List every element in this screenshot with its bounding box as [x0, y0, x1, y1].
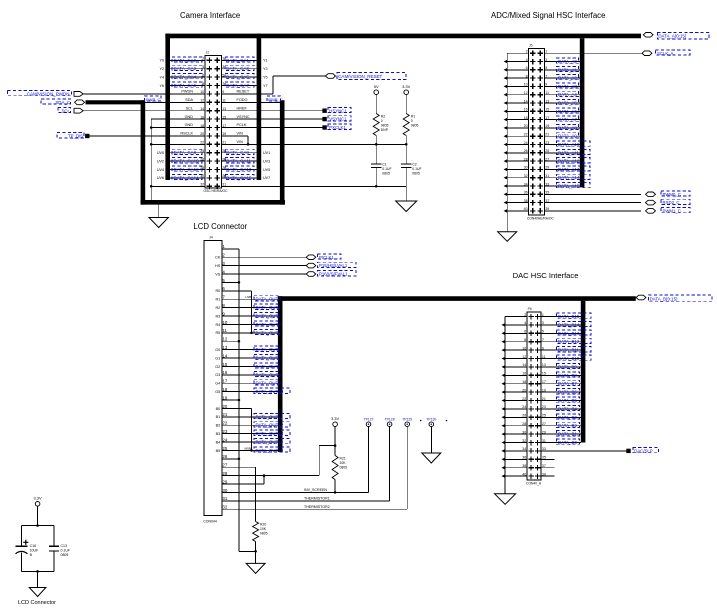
- wire rail to ground: [405, 186, 407, 201]
- wire R21 to INV_SCREEN: [334, 480, 336, 493]
- wire pin32: [151, 185, 205, 187]
- wire DATA_OUT9: [222, 382, 278, 384]
- svg-text:SDA: SDA: [185, 98, 193, 102]
- svg-text:LCD Connector: LCD Connector: [18, 600, 56, 606]
- svg-text:0.1UF: 0.1UF: [61, 549, 71, 553]
- svg-text:DATA_B14: DATA_B14: [558, 322, 580, 327]
- net label DATA_B5: [557, 397, 580, 402]
- svg-text:CAM/VISION_PWDN: CAM/VISION_PWDN: [27, 92, 70, 97]
- connector P6 CON40_A: [522, 307, 546, 485]
- wire J5 pin14: [507, 102, 528, 104]
- svg-text:P16/VS/FVAL1: P16/VS/FVAL1: [319, 272, 348, 277]
- wire DATA_B4: [541, 408, 581, 410]
- wire J5 pin34: [507, 185, 528, 187]
- svg-text:13: 13: [545, 99, 549, 103]
- net label DATA_B3: [557, 414, 580, 419]
- wire LCD pin19: [222, 399, 239, 401]
- svg-text:13: 13: [222, 107, 226, 111]
- wire LCD pin5: [222, 281, 239, 283]
- svg-text:DATA_CA6: DATA_CA6: [174, 83, 197, 88]
- net label DATA_OUT6: [254, 355, 278, 360]
- wire J2 Y1: [221, 59, 256, 61]
- net label DATA_A0: [557, 58, 579, 63]
- wire DATA_A10: [545, 144, 580, 146]
- bus DATA_OUT horizontal: [278, 296, 636, 301]
- svg-text:16: 16: [222, 370, 227, 375]
- wire P6 pin12: [505, 358, 527, 360]
- svg-text:P6: P6: [528, 307, 532, 311]
- svg-text:DATA_A13: DATA_A13: [558, 167, 580, 172]
- svg-text:31: 31: [222, 496, 227, 501]
- svg-text:31: 31: [545, 174, 549, 178]
- svg-text:DATA_A15: DATA_A15: [558, 184, 580, 189]
- wire DATA_OUT8: [222, 374, 278, 376]
- svg-text:C1: C1: [382, 163, 386, 167]
- svg-text:15: 15: [545, 108, 549, 112]
- wire J5 pin2: [507, 52, 528, 54]
- wire J5 pin4: [507, 61, 528, 63]
- wire J2 UV5: [221, 169, 256, 171]
- svg-text:29: 29: [222, 174, 226, 178]
- wire INV_SCREEN: [222, 491, 369, 493]
- svg-text:B5: B5: [216, 449, 221, 453]
- wire J2 UV3: [221, 160, 256, 162]
- wire DATA_B3: [541, 416, 581, 418]
- svg-text:11: 11: [222, 99, 226, 103]
- svg-text:DATA_B12: DATA_B12: [558, 339, 580, 344]
- svg-text:18: 18: [524, 116, 528, 120]
- svg-text:40: 40: [524, 207, 528, 211]
- svg-text:11: 11: [222, 328, 227, 333]
- wire DATA_OUT0: [222, 298, 278, 300]
- svg-text:34: 34: [524, 182, 528, 186]
- svg-text:4: 4: [524, 321, 526, 325]
- svg-text:24: 24: [522, 405, 526, 409]
- svg-text:21: 21: [542, 397, 546, 401]
- wire J5 pin12: [507, 94, 528, 96]
- svg-text:P15/HS/LVAL1: P15/HS/LVAL1: [319, 263, 348, 268]
- svg-text:CON40_A: CON40_A: [526, 481, 542, 485]
- svg-text:TP130: TP130: [426, 417, 436, 421]
- wire PWM0_C: [545, 193, 642, 195]
- wire P6 pin32: [505, 442, 527, 444]
- wire pin22: [151, 143, 205, 145]
- port SDA tag: [75, 100, 85, 105]
- svg-text:35: 35: [545, 191, 549, 195]
- svg-text:C2: C2: [412, 163, 416, 167]
- svg-text:DATA_A12: DATA_A12: [558, 159, 580, 164]
- svg-text:20: 20: [222, 404, 227, 409]
- svg-text:DATA_CA9: DATA_CA9: [226, 150, 249, 155]
- svg-text:10: 10: [522, 346, 526, 350]
- svg-text:30: 30: [524, 166, 528, 170]
- svg-text:23: 23: [222, 429, 227, 434]
- net label DATA_OUT4: [254, 329, 278, 334]
- svg-text:17: 17: [222, 379, 227, 384]
- svg-text:12: 12: [522, 355, 526, 359]
- wire THERMISTOR1: [222, 500, 390, 502]
- net label DATA_B2: [557, 422, 580, 427]
- svg-text:20: 20: [524, 124, 528, 128]
- svg-text:TP127: TP127: [364, 417, 374, 421]
- bus PWR right vertical: [280, 100, 285, 204]
- svg-text:R5: R5: [215, 331, 220, 335]
- svg-text:10: 10: [524, 83, 528, 87]
- wire J5 pin20: [507, 127, 528, 129]
- wire GND pin18: [151, 127, 205, 129]
- svg-text:15: 15: [222, 362, 227, 367]
- svg-text:19: 19: [545, 124, 549, 128]
- svg-text:FODO: FODO: [237, 98, 248, 102]
- net label DATA_A11: [557, 149, 591, 154]
- svg-text:33: 33: [542, 447, 546, 451]
- svg-text:DATA_CA12: DATA_CA12: [174, 167, 200, 172]
- svg-text:DATA_A7: DATA_A7: [558, 117, 577, 122]
- svg-text:18: 18: [522, 380, 526, 384]
- net label DATA_B14: [557, 321, 592, 326]
- wire P6 pin2: [505, 316, 527, 318]
- svg-text:SDA_C: SDA_C: [55, 100, 70, 105]
- svg-text:7: 7: [542, 338, 544, 342]
- wire P6 pin6: [505, 332, 527, 334]
- svg-text:8: 8: [202, 82, 204, 86]
- wire J2 Y4: [170, 76, 205, 78]
- svg-text:HS: HS: [215, 264, 221, 268]
- wire P6 pin40: [505, 475, 527, 477]
- wire DATA_B6: [541, 391, 581, 393]
- wire DATA_A12: [545, 160, 580, 162]
- svg-text:3: 3: [542, 321, 544, 325]
- wire J2 Y7: [221, 85, 256, 87]
- resistor R2: [373, 114, 379, 136]
- svg-text:DATA_CA7: DATA_CA7: [226, 83, 249, 88]
- bus DAC right vertical: [581, 301, 586, 443]
- wire 3.3V to R1: [405, 95, 407, 114]
- svg-text:DATA_B10: DATA_B10: [558, 356, 580, 361]
- wire J5 pin18: [507, 119, 528, 121]
- wire R2 to node: [375, 136, 377, 145]
- svg-text:VS: VS: [215, 272, 221, 276]
- svg-text:R1: R1: [411, 115, 415, 119]
- wire R1 to node: [405, 136, 407, 145]
- wire J2 UV0: [170, 152, 205, 154]
- svg-text:DATA_B1: DATA_B1: [558, 432, 577, 437]
- svg-text:23: 23: [542, 405, 546, 409]
- net label DATA_A12: [557, 158, 591, 163]
- svg-text:0805: 0805: [61, 553, 69, 557]
- wire P6 pin4: [505, 324, 527, 326]
- svg-text:DATA_OUT12: DATA_OUT12: [256, 423, 284, 428]
- net label DATA_A3: [557, 83, 579, 88]
- wire DATA_OUT2: [222, 315, 278, 317]
- net label DATA_A8: [557, 124, 579, 129]
- wire DATA_A0: [545, 61, 580, 63]
- svg-text:UV0: UV0: [157, 151, 164, 155]
- testpoint TP129: [405, 422, 410, 427]
- svg-text:UV1: UV1: [263, 151, 270, 155]
- wire J5 pin26: [507, 152, 528, 154]
- net label DATA_B0: [557, 439, 580, 444]
- net label DATA_OUT7: [254, 363, 278, 368]
- svg-text:15: 15: [542, 372, 546, 376]
- svg-text:DATA_B15: DATA_B15: [558, 314, 580, 319]
- svg-text:23: 23: [222, 149, 226, 153]
- net label DATA_OUT14: [254, 439, 290, 444]
- svg-text:0805: 0805: [381, 124, 389, 128]
- svg-text:DATA_B7: DATA_B7: [558, 381, 577, 386]
- svg-text:2: 2: [202, 57, 204, 61]
- wire DATA_B12: [541, 341, 581, 343]
- svg-text:7: 7: [545, 74, 547, 78]
- svg-text:Y7: Y7: [263, 84, 268, 88]
- wire RXD2_C: [545, 202, 642, 204]
- svg-text:G3: G3: [215, 373, 220, 377]
- svg-text:DATA_B3: DATA_B3: [558, 415, 577, 420]
- wire SCL: [84, 110, 206, 112]
- wire node to C1: [375, 144, 377, 164]
- testpoint TP128: [387, 422, 392, 427]
- svg-text:B4: B4: [216, 440, 221, 444]
- svg-text:29: 29: [222, 479, 227, 484]
- net label DATA_B9: [557, 363, 580, 368]
- wire DATA_B8: [541, 374, 581, 376]
- wire pin6 jog: [222, 290, 252, 292]
- wire DATA_OUT14: [222, 441, 278, 443]
- svg-text:UV4: UV4: [157, 168, 164, 172]
- svg-text:39: 39: [545, 207, 549, 211]
- svg-text:4: 4: [202, 65, 204, 69]
- port CAM/VISION_RESET tag: [326, 74, 336, 79]
- wire DATA_B14: [541, 324, 581, 326]
- wire J5 pin32: [507, 177, 528, 179]
- testpoint TP130: [429, 422, 434, 427]
- wire C16 top stub: [21, 526, 23, 547]
- svg-text:28: 28: [222, 471, 227, 476]
- bus DATA_OUT vertical: [278, 296, 283, 452]
- wire P6 pin28: [505, 425, 527, 427]
- svg-text:14: 14: [524, 99, 528, 103]
- resistor R20: [253, 522, 259, 542]
- svg-text:1: 1: [542, 313, 544, 317]
- capacitor C2: [401, 163, 412, 165]
- svg-text:G2: G2: [215, 365, 220, 369]
- svg-text:32: 32: [222, 505, 227, 510]
- wire GND rail row16: [221, 185, 406, 187]
- svg-text:VIN: VIN: [237, 132, 244, 136]
- wire J2 UV4: [170, 169, 205, 171]
- svg-text:0805: 0805: [340, 466, 348, 470]
- svg-text:G0: G0: [215, 348, 220, 352]
- wire DATA_A3: [545, 85, 580, 87]
- wire DATA_B9: [541, 366, 581, 368]
- net label DATA_A9: [557, 133, 579, 138]
- net label DATA_OUT3: [254, 321, 278, 326]
- svg-text:Y5: Y5: [263, 75, 268, 79]
- svg-text:DAC/SLP: DAC/SLP: [634, 449, 653, 454]
- svg-text:DATA_CA2: DATA_CA2: [174, 66, 197, 71]
- wire PWM1_C: [545, 210, 642, 212]
- svg-text:9: 9: [542, 346, 544, 350]
- port CAM/VISION_PWDN tag: [74, 92, 83, 97]
- svg-text:B2: B2: [216, 424, 221, 428]
- svg-text:OSC HE/RA/OC: OSC HE/RA/OC: [204, 189, 229, 193]
- svg-text:11: 11: [542, 355, 546, 359]
- svg-text:PWM1_C: PWM1_C: [663, 209, 681, 214]
- wire LCD GND tie: [238, 249, 240, 552]
- svg-text:0805: 0805: [260, 532, 268, 536]
- svg-text:UV6: UV6: [157, 176, 164, 180]
- svg-text:16: 16: [200, 115, 204, 119]
- svg-text:J2: J2: [206, 51, 210, 55]
- svg-text:DAC HSC Interface: DAC HSC Interface: [513, 271, 579, 280]
- svg-text:DATA_OUT13: DATA_OUT13: [256, 431, 284, 436]
- net label PWR right: [267, 96, 281, 101]
- svg-text:20: 20: [200, 132, 204, 136]
- svg-text:TP128: TP128: [385, 417, 395, 421]
- svg-text:R1: R1: [215, 298, 220, 302]
- net label DATA_OUT12: [254, 422, 290, 427]
- wire LCD pin12: [222, 340, 239, 342]
- wire THERMISTOR2: [222, 508, 407, 510]
- svg-text:PXCLK1: PXCLK1: [329, 125, 346, 130]
- wire J5 pin6: [507, 69, 528, 71]
- wire P6 pin34: [505, 450, 527, 452]
- testpoint TP127: [366, 422, 371, 427]
- ground camera caps: [396, 201, 417, 212]
- svg-text:8: 8: [526, 74, 528, 78]
- wire DATA_A8: [545, 127, 580, 129]
- wire TP130 to ground: [430, 427, 432, 454]
- wire ADC left vertical: [506, 53, 508, 232]
- wire DATA_OUT5: [222, 349, 278, 351]
- wire J2 Y6: [170, 85, 205, 87]
- wire DAC/SLEEP: [541, 450, 626, 452]
- port SCLK tag: [642, 51, 652, 56]
- wire HSYNC1: [221, 110, 322, 112]
- svg-text:DATA_B(0:15): DATA_B(0:15): [650, 296, 678, 301]
- wire VIN jog: [221, 135, 248, 137]
- svg-text:26: 26: [222, 454, 227, 459]
- svg-text:6: 6: [524, 330, 526, 334]
- svg-text:LSB: LSB: [245, 295, 251, 299]
- svg-text:10UF: 10UF: [30, 549, 39, 553]
- net label DAC/SLEEP: [626, 449, 630, 453]
- svg-text:0805: 0805: [411, 124, 419, 128]
- svg-text:DATA_OUT1: DATA_OUT1: [256, 305, 282, 310]
- svg-text:3.3V: 3.3V: [33, 496, 42, 501]
- svg-text:DATA_CA15: DATA_CA15: [226, 175, 252, 180]
- svg-text:19: 19: [222, 132, 226, 136]
- net label DATA_A5: [557, 100, 579, 105]
- ground LCD: [246, 563, 265, 573]
- capacitor C1: [371, 163, 382, 165]
- net label DATA_OUT10: [254, 388, 290, 393]
- svg-text:DATA_CA5: DATA_CA5: [226, 75, 249, 80]
- wire VIN main: [221, 143, 406, 145]
- svg-text:24: 24: [524, 141, 528, 145]
- svg-text:R2: R2: [215, 306, 220, 310]
- svg-text:13: 13: [542, 363, 546, 367]
- ground camera: [149, 218, 168, 228]
- svg-text:PCLK: PCLK: [237, 123, 247, 127]
- wire DATA_OUT3: [222, 323, 278, 325]
- svg-text:24: 24: [200, 149, 204, 153]
- svg-text:20: 20: [522, 388, 526, 392]
- net label DATA_OUT2: [254, 313, 278, 318]
- wire P6 stub pin35: [541, 458, 554, 460]
- svg-text:27: 27: [545, 157, 549, 161]
- svg-text:PWDN: PWDN: [181, 90, 193, 94]
- svg-text:25: 25: [222, 446, 227, 451]
- svg-text:DATA_OUT6: DATA_OUT6: [256, 356, 282, 361]
- svg-text:33: 33: [545, 182, 549, 186]
- net label DATA_B8: [557, 372, 580, 377]
- svg-text:21: 21: [222, 141, 226, 145]
- svg-text:6: 6: [202, 73, 204, 77]
- wire J5 pin24: [507, 144, 528, 146]
- svg-text:39: 39: [542, 472, 546, 476]
- wire 5V to R2: [375, 95, 377, 114]
- svg-text:DATA_OUT3: DATA_OUT3: [256, 322, 282, 327]
- svg-text:DATA_A(0:15): DATA_A(0:15): [658, 34, 686, 39]
- ground DAC: [495, 494, 516, 505]
- wire P6 pin10: [505, 349, 527, 351]
- wire P16/VS/FVAL1: [222, 273, 307, 275]
- svg-text:DATA_OUT2: DATA_OUT2: [256, 314, 282, 319]
- wire DATA_OUT10: [222, 391, 278, 393]
- net label DATA_A6: [557, 108, 579, 113]
- svg-text:0805: 0805: [382, 172, 390, 176]
- power 3.3V LCD caps: [35, 502, 40, 507]
- net label PWR left: [145, 96, 162, 101]
- svg-text:30: 30: [200, 174, 204, 178]
- svg-text:DATA_CA10: DATA_CA10: [174, 159, 200, 164]
- svg-text:11: 11: [545, 91, 549, 95]
- svg-text:9: 9: [545, 83, 547, 87]
- svg-text:INV_SCREEN: INV_SCREEN: [304, 488, 327, 492]
- svg-text:15: 15: [222, 115, 226, 119]
- svg-text:GND: GND: [185, 115, 194, 119]
- wire C2 to rail: [405, 167, 407, 186]
- svg-text:28: 28: [524, 157, 528, 161]
- wire DATA_A9: [545, 135, 580, 137]
- svg-text:DATA_A10: DATA_A10: [558, 142, 580, 147]
- net label DATA_OUT13: [254, 430, 290, 435]
- svg-text:24: 24: [222, 437, 227, 442]
- svg-text:Camera Interface: Camera Interface: [180, 11, 240, 20]
- wire LCD pin1: [222, 248, 239, 250]
- wire J2 UV7: [221, 177, 256, 179]
- net label DATA_A2: [557, 75, 579, 80]
- svg-text:DATA_B11: DATA_B11: [558, 348, 580, 353]
- wire DATA_OUT13: [222, 433, 278, 435]
- svg-text:DATA_CA13: DATA_CA13: [226, 167, 252, 172]
- svg-text:DATA_OUT4: DATA_OUT4: [256, 330, 282, 335]
- wire J2 Y3: [221, 68, 256, 70]
- wire DATA_A6: [545, 110, 580, 112]
- svg-text:VSYNC1: VSYNC1: [329, 117, 347, 122]
- svg-text:G4: G4: [215, 382, 220, 386]
- svg-text:3.3V: 3.3V: [402, 84, 411, 89]
- net label DATA_B15: [557, 313, 592, 318]
- svg-text:DATA_A3: DATA_A3: [558, 84, 577, 89]
- wire C13 bottom stub: [53, 551, 55, 572]
- svg-text:C16: C16: [30, 544, 36, 548]
- capacitor C16: [16, 545, 28, 547]
- svg-text:B3: B3: [216, 432, 221, 436]
- svg-text:22: 22: [200, 141, 204, 145]
- wire DATA_B1: [541, 433, 581, 435]
